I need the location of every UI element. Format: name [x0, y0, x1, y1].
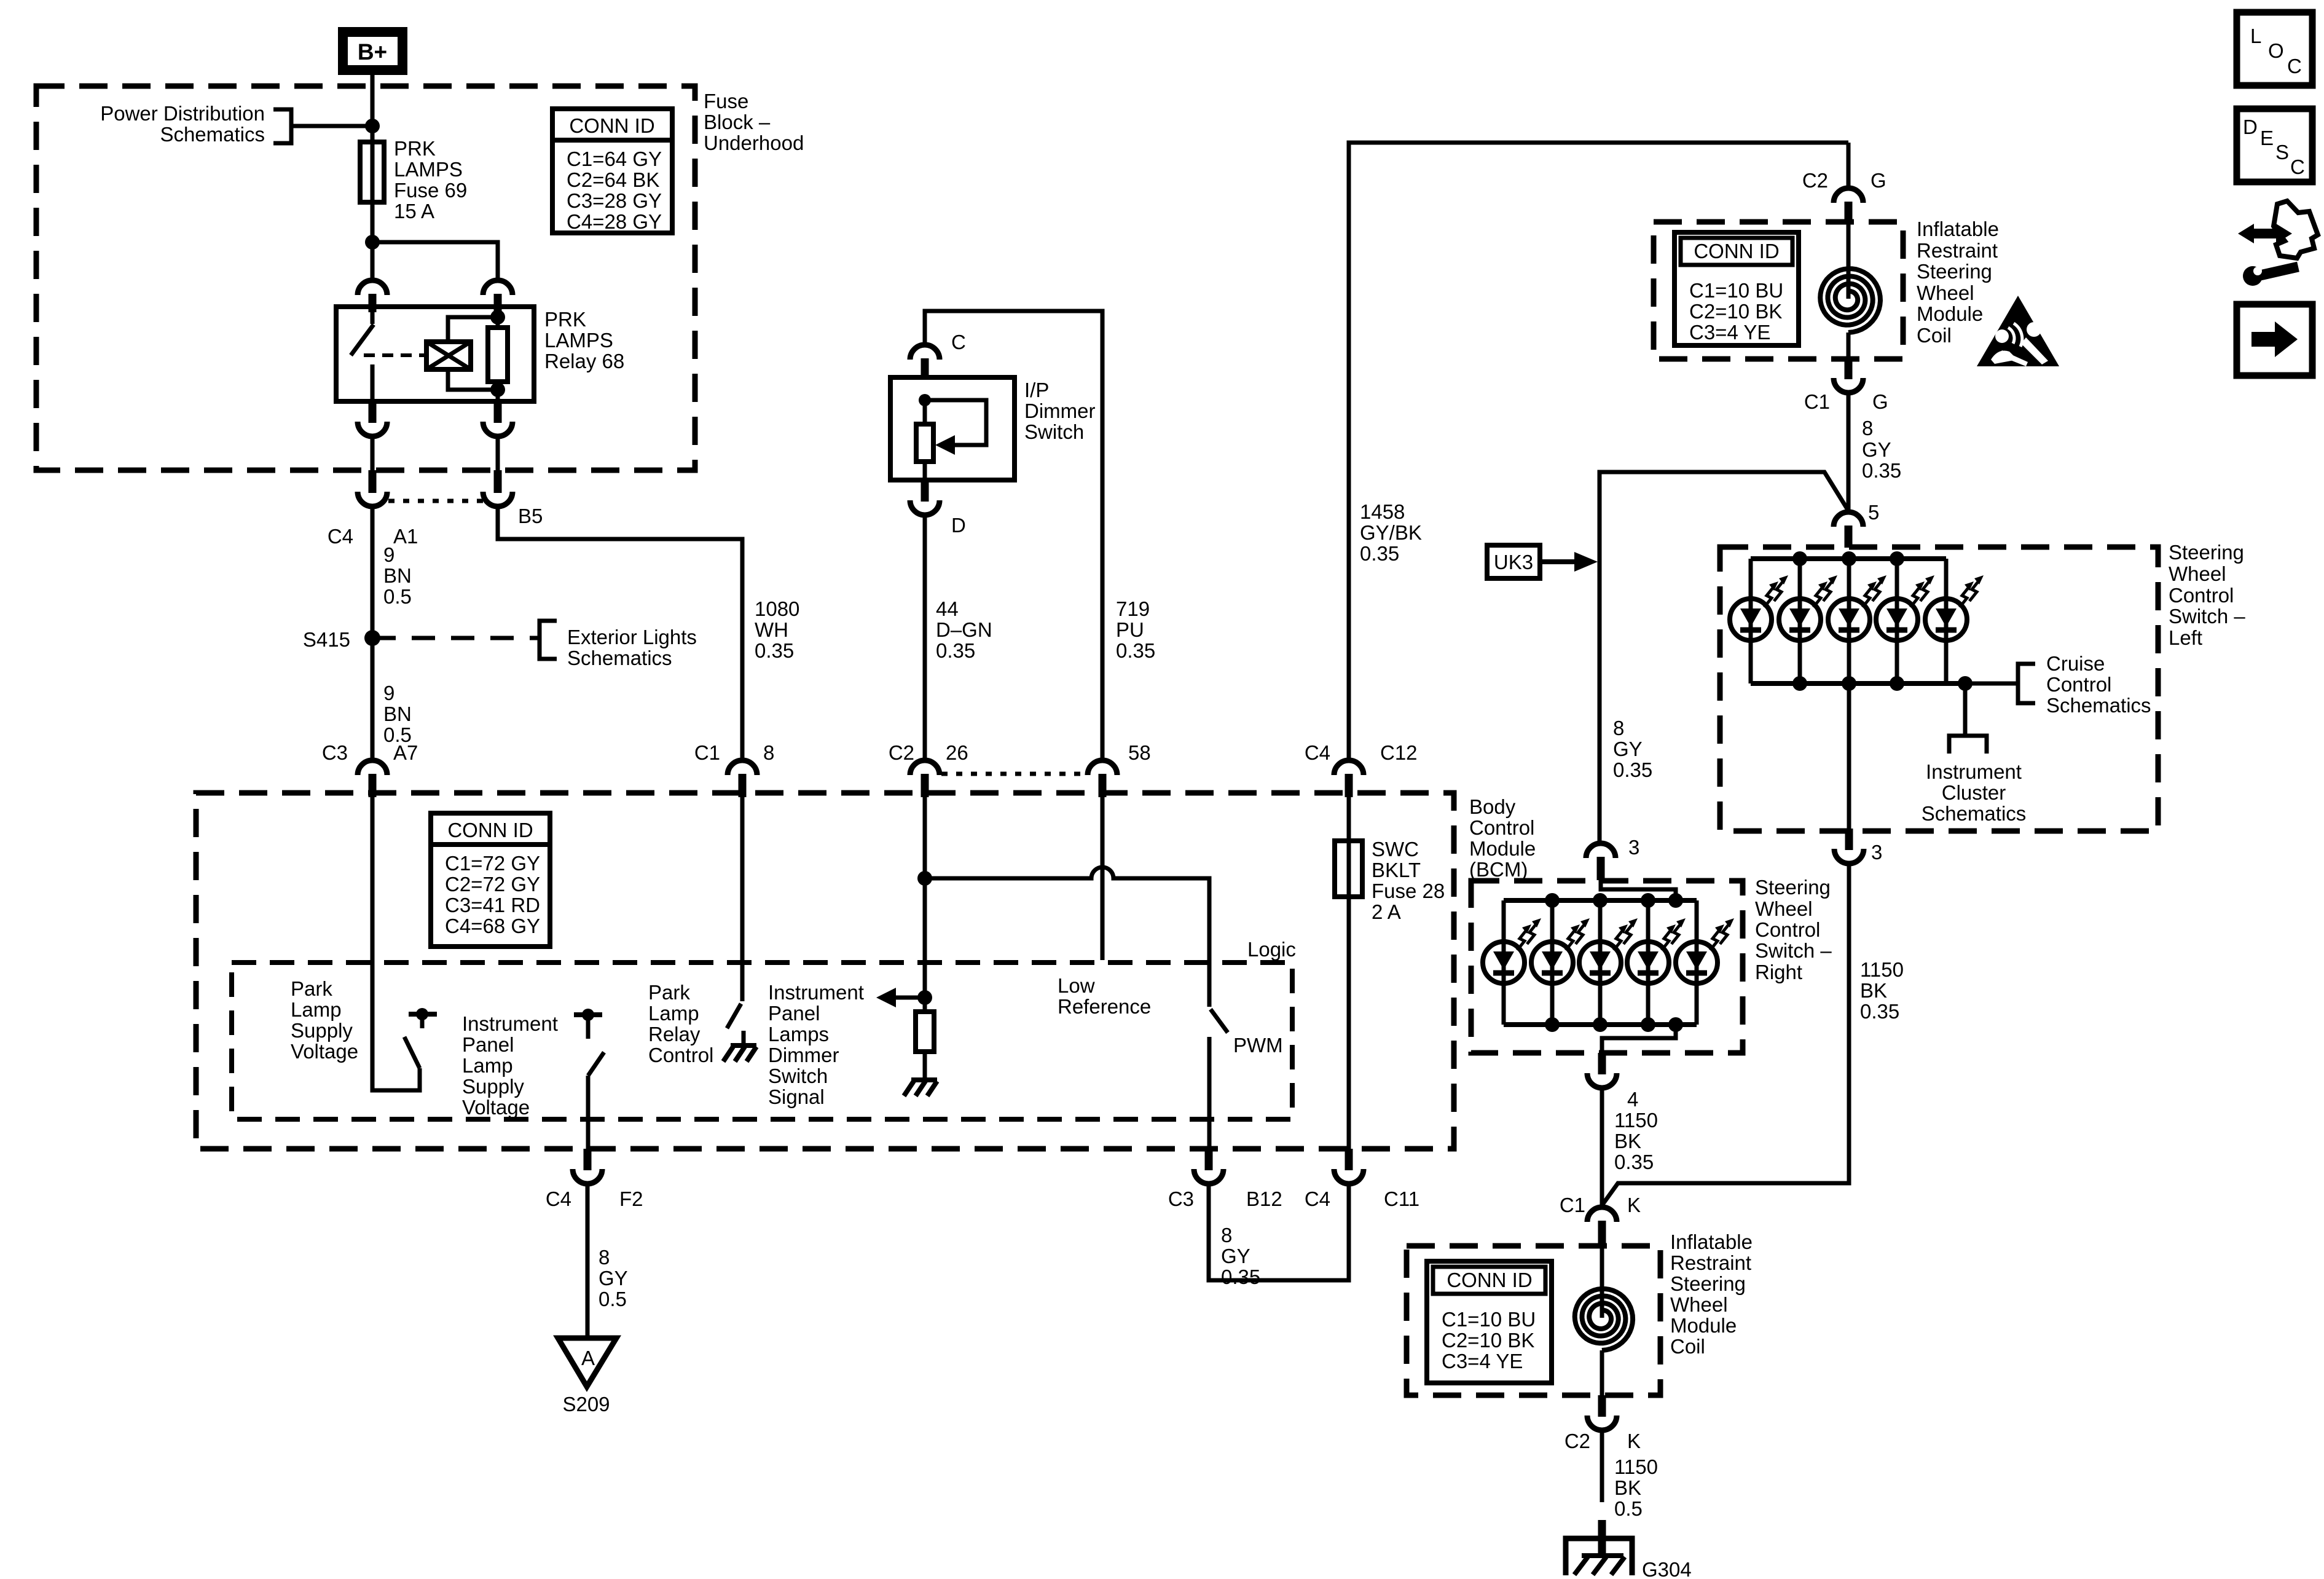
svg-text:L: L [2250, 25, 2261, 47]
SRS warning triangle [1977, 296, 2059, 366]
junction node above relay [365, 235, 380, 250]
reference Power Distribution Schematics [100, 102, 291, 146]
connector C4 C11 [1334, 1149, 1364, 1184]
CONN ID table fuse block [552, 109, 672, 233]
svg-text:Exterior Lights: Exterior Lights [567, 626, 697, 648]
label PRK LAMPS Fuse 69 15 A [394, 137, 467, 222]
svg-text:GY: GY [1862, 438, 1891, 461]
svg-text:Panel: Panel [462, 1033, 514, 1056]
clockspring coil bottom [1575, 1246, 1633, 1395]
svg-text:BK: BK [1860, 979, 1887, 1002]
svg-text:S209: S209 [562, 1393, 610, 1416]
svg-text:PRK: PRK [394, 137, 436, 160]
svg-text:C1: C1 [1560, 1194, 1585, 1216]
wire 44 D-GN [923, 515, 927, 760]
label C [951, 331, 966, 353]
switch PWM [1209, 1009, 1228, 1149]
ground G304 [1566, 1520, 1632, 1575]
svg-text:Wheel: Wheel [1670, 1293, 1728, 1316]
relay switch blade [351, 307, 374, 401]
label Park Lamp Supply Voltage [291, 977, 358, 1063]
svg-text:Lamps: Lamps [768, 1023, 829, 1045]
label C4 C12 [1305, 741, 1418, 764]
connector C2 26 [910, 760, 940, 797]
svg-text:1458: 1458 [1360, 500, 1405, 523]
svg-text:C: C [951, 331, 966, 353]
connector C2 G [1834, 188, 1863, 222]
svg-text:(BCM): (BCM) [1469, 858, 1528, 881]
svg-text:Fuse 69: Fuse 69 [394, 179, 467, 202]
svg-text:D: D [2243, 116, 2258, 138]
svg-text:C1=10 BU: C1=10 BU [1689, 279, 1783, 302]
label 3 right switch [1628, 836, 1639, 859]
svg-text:Dimmer: Dimmer [1024, 400, 1095, 422]
label C1 K [1560, 1194, 1641, 1216]
svg-text:F2: F2 [619, 1187, 643, 1210]
connector relay out right [483, 401, 512, 436]
label 1150 BK 0.35 right [1860, 958, 1904, 1023]
label Logic [1247, 938, 1296, 961]
label 44 D-GN 0.35 [936, 597, 992, 662]
wire 1458 GY/BK [1349, 143, 1848, 760]
svg-text:0.5: 0.5 [599, 1288, 627, 1310]
svg-text:BKLT: BKLT [1372, 859, 1421, 881]
svg-text:Instrument: Instrument [1926, 760, 2022, 783]
svg-text:Low: Low [1058, 974, 1095, 997]
svg-text:Control: Control [1469, 816, 1534, 839]
svg-text:8: 8 [599, 1246, 610, 1269]
LED left switch 2 [1779, 559, 1837, 683]
svg-text:C3=4 YE: C3=4 YE [1442, 1350, 1523, 1372]
steering wheel control switch left dashed box [1720, 547, 2158, 831]
svg-text:Fuse 28: Fuse 28 [1372, 880, 1445, 902]
label 1150 BK 0.35 left [1614, 1109, 1658, 1173]
svg-text:G: G [1871, 169, 1886, 192]
svg-text:1150: 1150 [1614, 1455, 1658, 1478]
label C3 A7 [322, 741, 418, 764]
svg-text:C2: C2 [1802, 169, 1828, 192]
svg-text:Cruise: Cruise [2046, 652, 2105, 675]
label 1458 GY/BK 0.35 [1360, 500, 1422, 565]
label C1 G [1804, 390, 1888, 413]
wire A7 into BCM [372, 797, 420, 1090]
svg-text:C1=64 GY: C1=64 GY [567, 148, 662, 170]
connector C1 K [1587, 1207, 1617, 1244]
wire to C4 F2 [586, 1076, 591, 1149]
wire 1150 BK right leg [1602, 864, 1849, 1205]
label 8 GY 0.35 B12 [1221, 1224, 1260, 1288]
svg-text:3: 3 [1871, 841, 1882, 864]
label Instrument Panel Lamp Supply Voltage [462, 1012, 558, 1119]
CONN ID table BCM [431, 813, 550, 947]
splice S415 [364, 630, 380, 646]
svg-text:G304: G304 [1642, 1558, 1692, 1579]
connector relay pin left [358, 280, 387, 312]
svg-text:A7: A7 [393, 741, 418, 764]
svg-text:WH: WH [755, 618, 788, 641]
label Low Reference [1058, 974, 1151, 1018]
svg-text:Inflatable: Inflatable [1670, 1231, 1753, 1253]
wire branch to relay coil pin [372, 242, 498, 280]
wire to C2 G [1847, 143, 1851, 188]
fuse PRK LAMPS Fuse 69 15A [360, 126, 384, 242]
label B5 [518, 505, 543, 527]
LED left switch 4 [1876, 559, 1934, 683]
svg-text:Signal: Signal [768, 1085, 825, 1108]
connector 58 [1088, 760, 1117, 797]
svg-text:Switch: Switch [1024, 420, 1084, 443]
wire 9 BN upper [371, 506, 375, 638]
svg-text:PU: PU [1116, 618, 1144, 641]
connector 5 [1834, 512, 1863, 548]
svg-text:Schematics: Schematics [160, 123, 265, 146]
svg-text:C2=10 BK: C2=10 BK [1689, 300, 1782, 323]
label Park Lamp Relay Control [648, 981, 713, 1066]
svg-text:Control: Control [1755, 918, 1820, 941]
LED right switch 1 [1483, 900, 1541, 1025]
svg-text:Voltage: Voltage [291, 1040, 358, 1063]
svg-text:Module: Module [1469, 837, 1536, 860]
svg-text:44: 44 [936, 597, 959, 620]
svg-text:Control: Control [2046, 673, 2111, 696]
svg-text:2 A: 2 A [1372, 900, 1401, 923]
svg-text:1150: 1150 [1614, 1109, 1658, 1132]
svg-text:Body: Body [1469, 795, 1516, 818]
LED left switch 5 [1925, 559, 1984, 683]
label C4 F2 [546, 1187, 643, 1210]
led bus bottom right switch [1504, 1017, 1697, 1032]
connector C2 K [1587, 1395, 1617, 1430]
svg-text:Cluster: Cluster [1942, 781, 2006, 804]
coil module dashed box bottom [1407, 1246, 1660, 1395]
svg-text:Restraint: Restraint [1670, 1251, 1751, 1274]
label Fuse Block - Underhood [704, 90, 804, 154]
wire 1080 WH [498, 506, 742, 760]
svg-text:C1: C1 [694, 741, 720, 764]
switch instrument panel lamp supply voltage [574, 1009, 604, 1076]
wire B12 to C11 loop [1209, 1184, 1349, 1280]
icon double arrow with component and wrench [2238, 201, 2318, 286]
svg-text:Steering: Steering [1917, 260, 1992, 283]
reference Cruise Control Schematics [1965, 652, 2151, 717]
svg-text:0.35: 0.35 [1613, 758, 1652, 781]
svg-text:0.35: 0.35 [1860, 1000, 1899, 1023]
relay coil box with X [426, 342, 471, 369]
clockspring coil top [1820, 222, 1880, 359]
led bus top right switch [1504, 893, 1697, 908]
label Steering Wheel Control Switch Left [2169, 541, 2245, 649]
svg-text:UK3: UK3 [1494, 551, 1533, 573]
fuse SWC BKLT [1335, 797, 1362, 1149]
svg-text:Control: Control [648, 1044, 713, 1066]
connector C1 8 [728, 760, 757, 797]
svg-text:0.35: 0.35 [1360, 542, 1399, 565]
wire C1G to 5 [1847, 393, 1851, 512]
label C2 K [1564, 1430, 1641, 1452]
svg-text:0.35: 0.35 [1862, 459, 1901, 482]
arrow UK3 [1540, 552, 1598, 572]
svg-text:Steering: Steering [2169, 541, 2244, 564]
svg-text:9: 9 [383, 543, 395, 566]
svg-text:Supply: Supply [291, 1019, 353, 1042]
svg-text:Left: Left [2169, 626, 2202, 649]
connector relay out left [358, 401, 387, 436]
wire led to connector 3 left [1847, 683, 1851, 829]
svg-text:BK: BK [1614, 1476, 1641, 1499]
label C2 26 [889, 741, 968, 764]
BCM dashed box [196, 793, 1454, 1149]
svg-text:4: 4 [1627, 1088, 1638, 1111]
svg-text:C12: C12 [1380, 741, 1418, 764]
wire dimmer top loop [925, 311, 1102, 760]
svg-text:CONN ID: CONN ID [1447, 1269, 1532, 1291]
led bus top left switch [1751, 551, 1946, 566]
coil module dashed box top [1654, 222, 1903, 359]
wire 719 inside BCM [1101, 797, 1105, 960]
svg-text:1080: 1080 [755, 597, 799, 620]
connector D dimmer [910, 480, 940, 515]
wire 9 BN lower [371, 638, 375, 760]
svg-text:Steering: Steering [1755, 876, 1831, 899]
svg-text:Restraint: Restraint [1917, 239, 1998, 262]
relay coil branch wires [448, 310, 505, 397]
svg-text:PWM: PWM [1233, 1034, 1283, 1057]
wire 3 jog into right switch [1601, 880, 1676, 900]
svg-text:G: G [1872, 390, 1888, 413]
svg-text:Schematics: Schematics [1922, 802, 2027, 825]
svg-text:C: C [2287, 55, 2302, 77]
svg-text:CONN ID: CONN ID [569, 114, 654, 137]
arrow instrument panel lamps dimmer switch signal [876, 988, 932, 1007]
CONN ID table coil bottom [1427, 1261, 1552, 1383]
svg-text:Coil: Coil [1670, 1335, 1705, 1358]
svg-text:C2=72 GY: C2=72 GY [445, 873, 540, 896]
LED right switch 4 [1627, 900, 1686, 1025]
label S415 [303, 628, 350, 651]
svg-text:0.35: 0.35 [936, 639, 975, 662]
svg-text:Module: Module [1670, 1314, 1737, 1337]
label Instrument Panel Lamps Dimmer Switch Signal [768, 981, 864, 1108]
svg-text:Switch –: Switch – [1755, 939, 1832, 962]
svg-text:C2=10 BK: C2=10 BK [1442, 1329, 1534, 1352]
svg-text:Inflatable: Inflatable [1917, 218, 1999, 240]
label SWC BKLT Fuse 28 2 A [1372, 838, 1445, 923]
label G304 [1642, 1558, 1692, 1579]
svg-text:A: A [581, 1347, 595, 1369]
svg-text:BK: BK [1614, 1130, 1641, 1152]
svg-text:Wheel: Wheel [2169, 562, 2226, 585]
reference Exterior Lights Schematics [540, 621, 697, 669]
svg-text:S415: S415 [303, 628, 350, 651]
svg-text:8: 8 [1862, 417, 1873, 439]
label 9 BN 0.5 lower [383, 682, 412, 746]
label D [951, 514, 966, 537]
svg-text:Relay: Relay [648, 1023, 701, 1045]
svg-text:8: 8 [1613, 717, 1624, 739]
label 5 [1868, 501, 1879, 524]
svg-text:Relay 68: Relay 68 [544, 350, 624, 372]
svg-text:S: S [2275, 141, 2289, 163]
svg-text:C4=28 GY: C4=28 GY [567, 210, 662, 233]
connector C3 B12 [1194, 1149, 1223, 1184]
dimmer potentiometer [916, 400, 933, 480]
svg-text:C2: C2 [889, 741, 914, 764]
svg-text:LAMPS: LAMPS [544, 329, 613, 352]
svg-text:26: 26 [946, 741, 968, 764]
connector C3 A7 [358, 760, 387, 797]
svg-text:C4: C4 [1305, 741, 1330, 764]
svg-text:K: K [1627, 1194, 1641, 1216]
svg-text:C4=68 GY: C4=68 GY [445, 915, 540, 937]
svg-text:Block –: Block – [704, 111, 771, 133]
connector C4 A1 [358, 470, 387, 506]
svg-text:C1=72 GY: C1=72 GY [445, 852, 540, 875]
ground park lamp relay control [723, 1031, 756, 1061]
svg-text:Fuse: Fuse [704, 90, 748, 112]
dimmer wiper loop with arrow [919, 394, 986, 455]
connector C4 C12 [1334, 760, 1364, 797]
switch park lamp relay control [727, 797, 742, 1028]
svg-text:D: D [951, 514, 966, 537]
fuse block underhood dashed box [36, 86, 695, 470]
connector relay pin right [483, 280, 512, 312]
junction node above fuse [365, 119, 380, 133]
label 1080 WH 0.35 [755, 597, 799, 662]
LED left switch 1 [1730, 559, 1788, 683]
icon arrow box [2237, 304, 2312, 376]
label PRK LAMPS Relay 68 [544, 308, 624, 372]
svg-text:58: 58 [1128, 741, 1151, 764]
svg-text:9: 9 [383, 682, 395, 704]
svg-text:C3=4 YE: C3=4 YE [1689, 321, 1770, 344]
svg-text:Switch: Switch [768, 1065, 828, 1087]
svg-text:C2: C2 [1564, 1430, 1590, 1452]
wire 26 inside BCM [923, 797, 927, 998]
svg-text:C4: C4 [546, 1187, 571, 1210]
reference Instrument Cluster Schematics [1922, 683, 2027, 825]
svg-text:GY: GY [599, 1267, 628, 1290]
svg-text:Schematics: Schematics [2046, 694, 2151, 717]
svg-text:K: K [1627, 1430, 1641, 1452]
label Steering Wheel Control Switch Right [1755, 876, 1832, 983]
svg-text:GY/BK: GY/BK [1360, 521, 1422, 544]
label C2 G [1802, 169, 1886, 192]
connector C dimmer [910, 345, 940, 378]
svg-text:Lamp: Lamp [291, 998, 342, 1021]
svg-text:8: 8 [763, 741, 774, 764]
label C1 8 [694, 741, 775, 764]
power symbol B+ [338, 27, 407, 75]
svg-text:8: 8 [1221, 1224, 1232, 1246]
label C4 A1 [328, 525, 418, 548]
svg-text:Logic: Logic [1247, 938, 1296, 961]
svg-text:C3=41 RD: C3=41 RD [445, 894, 540, 916]
wire jog out right switch [1602, 1025, 1676, 1053]
svg-text:Lamp: Lamp [462, 1054, 513, 1077]
LED right switch 5 [1676, 900, 1734, 1025]
label 3 left box [1871, 841, 1882, 864]
svg-text:Instrument: Instrument [768, 981, 864, 1004]
svg-text:0.5: 0.5 [383, 585, 412, 608]
wire 1150 BK left leg [1600, 1088, 1604, 1207]
connector 3 right switch [1586, 843, 1615, 880]
relay PRK LAMPS Relay 68 box [336, 307, 534, 401]
svg-text:Power Distribution: Power Distribution [100, 102, 265, 125]
svg-text:CONN ID: CONN ID [1694, 240, 1779, 262]
connector 3 left box [1834, 829, 1864, 864]
led bus bottom left switch [1751, 676, 1973, 691]
label 8 GY 0.5 [599, 1246, 628, 1310]
junction node dimmer signal [917, 871, 932, 886]
label 1150 BK 0.5 [1614, 1455, 1658, 1520]
svg-text:LAMPS: LAMPS [394, 158, 463, 181]
svg-text:BN: BN [383, 564, 412, 587]
wire B+ to fuse [371, 75, 375, 142]
svg-text:Schematics: Schematics [567, 647, 672, 669]
dashed wire to exterior lights [372, 636, 540, 640]
label Inflatable Restraint Steering Wheel Module Coil top [1917, 218, 1999, 347]
svg-text:B12: B12 [1246, 1187, 1282, 1210]
icon LOC box [2237, 12, 2312, 85]
svg-text:SWC: SWC [1372, 838, 1419, 860]
wire branch to right switch [1600, 472, 1848, 843]
svg-text:C3=28 GY: C3=28 GY [567, 189, 662, 212]
svg-text:A1: A1 [393, 525, 418, 548]
label 58 [1128, 741, 1151, 764]
icon DESC box [2237, 109, 2312, 182]
svg-text:PRK: PRK [544, 308, 586, 331]
relay resistor [488, 307, 508, 401]
svg-text:719: 719 [1116, 597, 1150, 620]
wire 1150 BK 0.5 [1600, 1430, 1604, 1502]
svg-text:Switch –: Switch – [2169, 605, 2245, 628]
svg-text:CONN ID: CONN ID [447, 819, 533, 841]
svg-text:0.35: 0.35 [1221, 1266, 1260, 1288]
svg-text:Supply: Supply [462, 1075, 524, 1098]
svg-text:C4: C4 [328, 525, 353, 548]
switch park lamp supply voltage [404, 1008, 437, 1068]
svg-text:Reference: Reference [1058, 995, 1151, 1018]
wire hop to PWM switch [925, 867, 1209, 1007]
svg-text:0.35: 0.35 [755, 639, 794, 662]
svg-text:BN: BN [383, 703, 412, 725]
logic dashed box [232, 963, 1292, 1119]
label 9 BN 0.5 upper [383, 543, 412, 608]
label I/P Dimmer Switch [1024, 379, 1095, 443]
label 8 GY 0.35 right [1862, 417, 1901, 482]
svg-text:B5: B5 [518, 505, 543, 527]
svg-text:Panel: Panel [768, 1002, 820, 1025]
svg-text:E: E [2260, 127, 2274, 149]
wire relay to B5 [496, 436, 500, 470]
svg-text:Instrument: Instrument [462, 1012, 558, 1035]
wire bracket to node [291, 124, 372, 128]
svg-text:Underhood: Underhood [704, 132, 804, 154]
label 4 [1627, 1088, 1638, 1111]
svg-text:5: 5 [1868, 501, 1879, 524]
svg-text:Lamp: Lamp [648, 1002, 699, 1025]
label Inflatable Restraint Steering Wheel Module Coil bottom [1670, 1231, 1753, 1358]
svg-text:Wheel: Wheel [1917, 282, 1974, 304]
label C3 B12 [1168, 1187, 1282, 1210]
svg-text:C3: C3 [1168, 1187, 1194, 1210]
svg-text:I/P: I/P [1024, 379, 1049, 401]
label Body Control Module BCM [1469, 795, 1536, 881]
connector 4 [1587, 1053, 1617, 1088]
svg-text:Park: Park [648, 981, 690, 1004]
ground dimmer signal resistor [904, 1080, 937, 1096]
label S209 [562, 1393, 610, 1416]
